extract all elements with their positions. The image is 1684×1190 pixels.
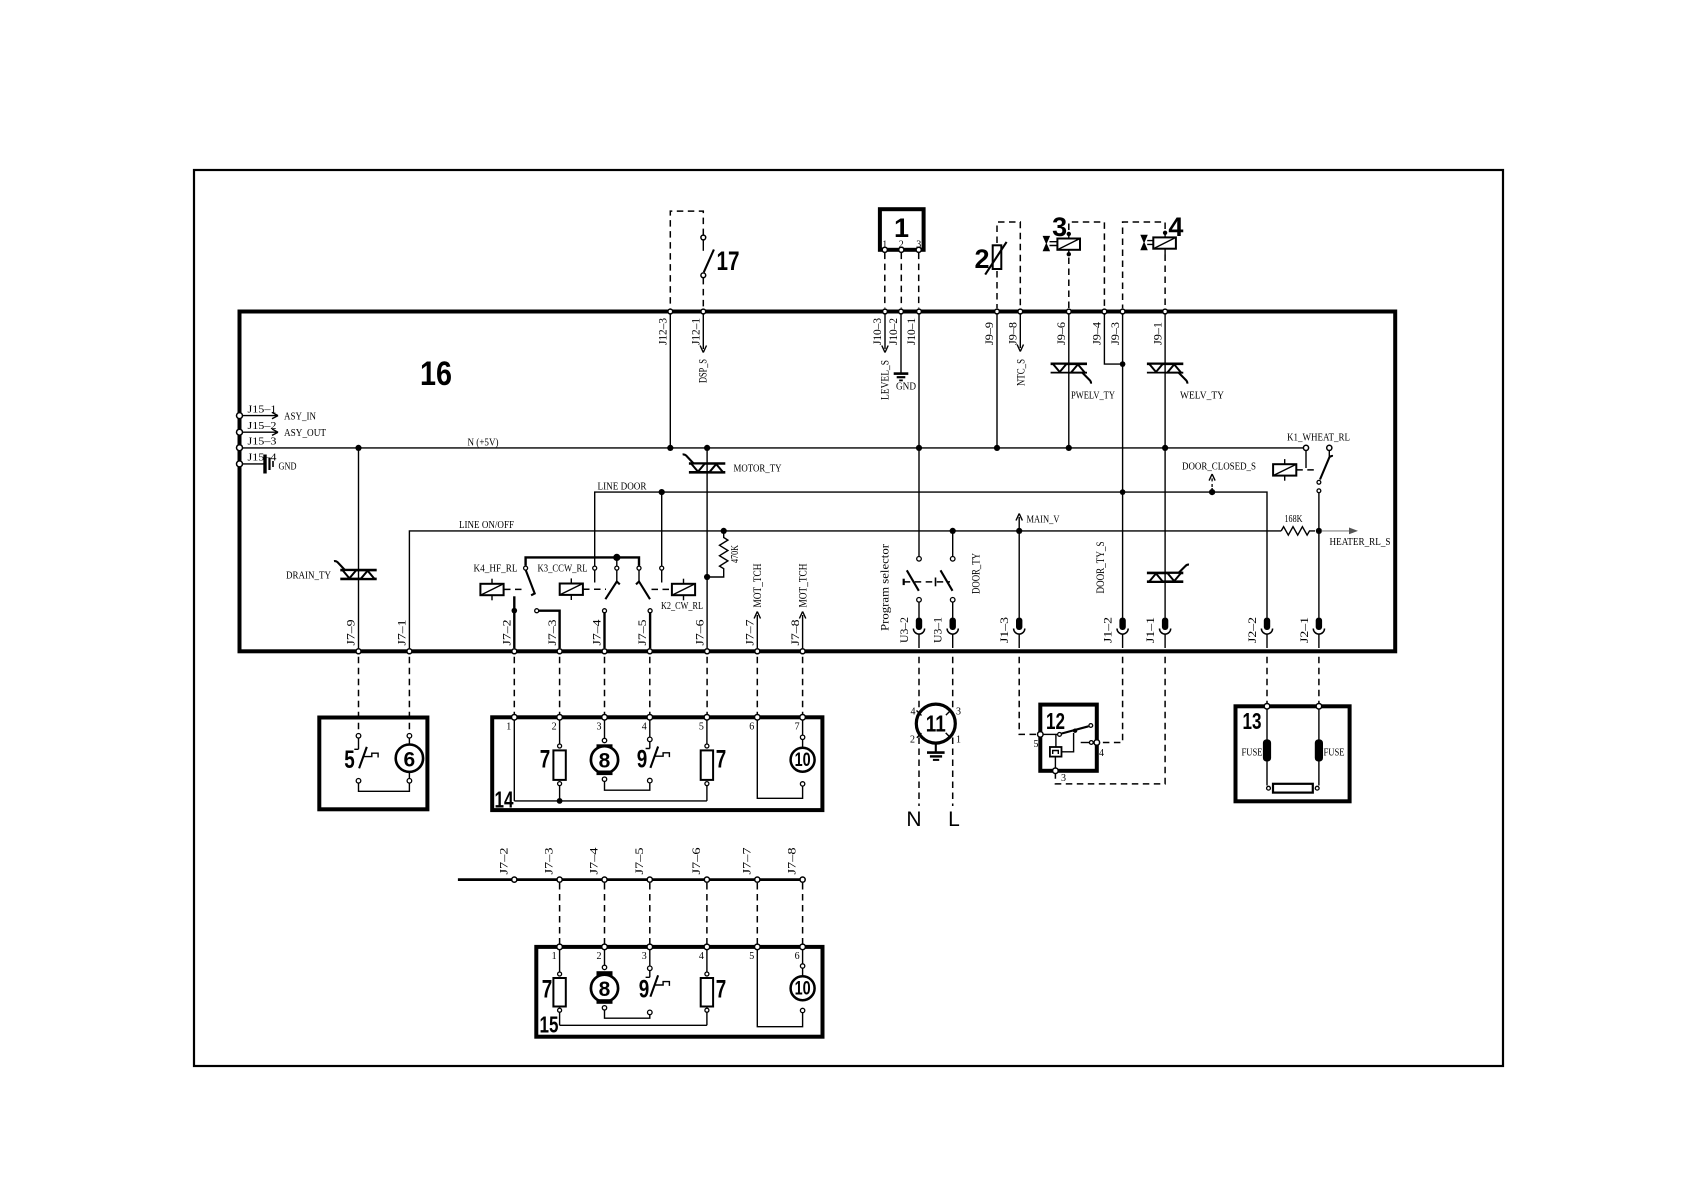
lamp 10 in block 14 (757, 720, 802, 798)
wire J7-6 to connector 14 (dashed) (706, 657, 708, 718)
svg-text:3: 3 (1061, 773, 1066, 784)
mech link K1 (dashed) (1296, 469, 1315, 471)
svg-text:2: 2 (974, 244, 989, 274)
svg-text:DOOR_TY_S: DOOR_TY_S (1093, 542, 1107, 594)
wire U3-1 to motor 11 then L (dashed) (952, 657, 954, 806)
pin J7-9 on board bottom edge (356, 649, 361, 654)
wire J9-4 jog to J9-3 line (1104, 315, 1120, 365)
svg-text:1: 1 (506, 722, 511, 733)
svg-text:16: 16 (420, 355, 452, 393)
svg-text:1: 1 (894, 213, 909, 243)
junction LINE DOOR / J1-2 line (1120, 489, 1126, 495)
component 1 (level switch block) (880, 209, 924, 250)
door lock 12 (1040, 705, 1097, 771)
svg-text:2: 2 (910, 735, 915, 746)
block 15 pin 6 (800, 944, 806, 950)
svg-text:MOT_TCH: MOT_TCH (750, 563, 764, 607)
svg-text:DOOR_CLOSED_S: DOOR_CLOSED_S (1182, 461, 1256, 473)
svg-text:ASY_OUT: ASY_OUT (284, 427, 326, 439)
block 14 pin 4 (647, 715, 653, 721)
door lock pin 4 (1081, 742, 1094, 744)
svg-text:9: 9 (639, 976, 650, 1004)
svg-text:K2_CW_RL: K2_CW_RL (661, 600, 703, 612)
svg-text:5: 5 (699, 722, 704, 733)
svg-text:MAIN_V: MAIN_V (1027, 514, 1060, 526)
block 14 pin 5 (704, 715, 710, 721)
svg-text:J7–4: J7–4 (590, 620, 604, 646)
pin J9-8 on board top edge (1018, 309, 1023, 314)
mech link K3 (dashed) (583, 588, 606, 590)
block 14 pin 6 (755, 715, 761, 721)
motor 11 ground (935, 743, 937, 752)
harness node J7-7 (755, 877, 760, 882)
right fuse (1318, 709, 1320, 741)
svg-text:MOT_TCH: MOT_TCH (795, 563, 809, 607)
LEVEL_S arrow from J10-3 (882, 315, 888, 353)
svg-text:3: 3 (956, 707, 961, 718)
pin J15-1 with ASY_IN arrow (237, 413, 243, 419)
svg-text:J7–7: J7–7 (743, 620, 757, 646)
wire: LINE DOOR (595, 492, 1267, 617)
svg-text:J9–4: J9–4 (1090, 322, 1104, 345)
pin J7-3 on board bottom edge (557, 649, 562, 654)
block 15 pin 2 (602, 944, 608, 950)
relay contact K3 : arm to J7-4 (615, 566, 619, 570)
door triac (DOOR_TY_S sense) (1147, 572, 1183, 575)
svg-text:J7–3: J7–3 (545, 620, 559, 646)
svg-text:4: 4 (642, 722, 647, 733)
svg-text:GND: GND (279, 461, 297, 473)
switch U3-2 (917, 557, 922, 562)
component 3 dashed harness box (1069, 222, 1105, 308)
MOT_TCH arrow J7-8 (799, 612, 805, 649)
wire J7-5 to connector 14 (dashed) (649, 657, 651, 718)
pin U3-2 on board bottom edge (916, 618, 922, 631)
pin J2-2 on board bottom edge (1264, 618, 1270, 631)
svg-text:10: 10 (795, 750, 811, 771)
relay coil K1 (1284, 459, 1286, 481)
pin J9-4 on board top edge (1102, 309, 1107, 314)
pin J10-1 on board top edge (917, 309, 922, 314)
svg-text:168K: 168K (1285, 513, 1303, 525)
svg-text:J12–1: J12–1 (689, 318, 703, 345)
block 14 pin 3 (602, 715, 608, 721)
component 2 dashed harness box (997, 222, 1020, 308)
wire J7-2 to connector 14 (dashed) (513, 657, 515, 718)
svg-text:9: 9 (637, 746, 648, 774)
N rail end circle (1303, 445, 1308, 450)
lamp 10 in block 15 (757, 950, 802, 1027)
svg-text:5: 5 (749, 951, 754, 962)
svg-text:J7–3: J7–3 (542, 848, 556, 875)
wire block14 pin1 to bus (513, 720, 515, 801)
svg-text:HEATER_RL_S: HEATER_RL_S (1330, 536, 1391, 548)
svg-text:J15–3: J15–3 (248, 436, 278, 448)
lower harness bus (458, 878, 803, 881)
heater element (1267, 762, 1319, 786)
svg-text:1: 1 (552, 951, 557, 962)
block 15 pin 1 (557, 944, 563, 950)
resistor 168K (1281, 527, 1315, 535)
svg-text:6: 6 (795, 951, 800, 962)
svg-text:J2–2: J2–2 (1245, 617, 1259, 643)
svg-text:4: 4 (911, 707, 916, 718)
svg-text:NTC_S: NTC_S (1014, 359, 1028, 386)
pin J7-8 on board bottom edge (800, 649, 805, 654)
svg-text:DOOR_TY: DOOR_TY (969, 553, 983, 594)
svg-text:J7–7: J7–7 (739, 848, 753, 875)
pin J15-4 with GND symbol (237, 461, 243, 467)
svg-text:FUSE: FUSE (1324, 748, 1345, 759)
relay contact bus feeding K4/K3/K2 (526, 557, 639, 565)
svg-text:Program selector: Program selector (878, 544, 892, 631)
svg-text:2: 2 (552, 722, 557, 733)
resistor 7 (right) in block 15 (706, 950, 708, 972)
wire J1-3 to door lock pin5 (dashed) (1019, 657, 1037, 735)
svg-text:J10–1: J10–1 (904, 318, 918, 345)
junction N rail / J12-3 (667, 445, 673, 451)
pin J9-3 on board top edge (1120, 309, 1125, 314)
wire J7-8 to connector 14 (dashed) (802, 657, 804, 718)
pin J15-3 feeds N(+5V) rail (237, 445, 243, 451)
svg-text:J10–3: J10–3 (870, 318, 884, 345)
mech link K4 (dashed) (504, 588, 526, 590)
svg-text:LINE ON/OFF: LINE ON/OFF (459, 519, 514, 531)
connector block 15 (536, 947, 822, 1037)
wire comp1 pin1 to J10-3 (dashed) (884, 253, 886, 309)
relay contact K1 (1327, 445, 1332, 450)
svg-text:7: 7 (795, 722, 800, 733)
svg-text:J10–2: J10–2 (886, 318, 900, 345)
wire J1-1 to door lock pin3 (dashed) (1055, 657, 1165, 784)
svg-text:5: 5 (344, 746, 355, 774)
svg-text:J9–3: J9–3 (1108, 322, 1122, 345)
junction N rail / PWELV triac (1066, 445, 1072, 451)
wire harness J7-8 to connector 15 (dashed) (802, 883, 804, 947)
wire: LINE ON/OFF rail (409, 531, 1281, 648)
svg-text:7: 7 (716, 746, 727, 774)
wire K2 contact to pin J7-5 (649, 613, 651, 648)
component 4 dashed harness box (1123, 222, 1166, 308)
wire J7-9 branch: N rail through DRAIN_TY to pin J7-9 (358, 448, 360, 648)
svg-text:3: 3 (597, 722, 602, 733)
svg-text:FUSE: FUSE (1242, 748, 1263, 759)
svg-text:MOTOR_TY: MOTOR_TY (734, 463, 782, 475)
pin J9-1 on board top edge (1163, 309, 1168, 314)
junction N rail / motor triac branch (704, 445, 710, 451)
pin J7-7 on board bottom edge (755, 649, 760, 654)
svg-text:J7–4: J7–4 (587, 848, 601, 875)
svg-text:13: 13 (1243, 708, 1262, 734)
wire K4 contact to pin J7-3 (539, 611, 560, 648)
svg-text:470K: 470K (729, 545, 741, 563)
svg-text:6: 6 (404, 749, 416, 772)
wire K1 contact to pin J2-1 (1318, 493, 1320, 618)
svg-text:J7–5: J7–5 (632, 848, 646, 875)
NTC_S arrow from J9-8 (1017, 315, 1023, 352)
wire J7-7 to connector 14 (dashed) (756, 657, 758, 718)
pin U3-1 on board bottom edge (950, 618, 956, 631)
svg-text:K1_WHEAT_RL: K1_WHEAT_RL (1287, 432, 1350, 444)
svg-text:4: 4 (699, 951, 704, 962)
harness node J7-5 (647, 877, 652, 882)
block 15 pin 5 (755, 944, 761, 950)
pin J2-1 on board bottom edge (1316, 618, 1322, 631)
junction LINE ON-OFF / 470K (721, 528, 727, 534)
wire J7-1 to box5 (dashed) (408, 657, 410, 733)
junction J9-4 / J9-3 (1120, 361, 1126, 367)
wire J2-2 to fuse box (dashed) (1266, 657, 1268, 703)
svg-text:N: N (906, 808, 921, 831)
svg-text:GND: GND (896, 381, 916, 393)
wire J10-1 down through board to U3-2 switch (918, 315, 920, 557)
stub wire to pin J7-2 (513, 596, 515, 648)
resistor 7 (right) in block 14 (706, 720, 708, 744)
svg-text:J9–9: J9–9 (982, 322, 996, 345)
door lock PTC element A (1050, 747, 1062, 757)
svg-text:K4_HF_RL: K4_HF_RL (474, 563, 518, 575)
svg-text:7: 7 (542, 976, 553, 1004)
pin J1-1 on board bottom edge (1162, 618, 1168, 631)
svg-text:8: 8 (599, 750, 611, 773)
svg-text:J7–6: J7–6 (692, 620, 706, 646)
svg-text:5: 5 (1034, 739, 1039, 750)
wire 5 to 6 inside box (359, 783, 410, 791)
pin J7-5 on board bottom edge (647, 649, 652, 654)
svg-text:J7–2: J7–2 (496, 848, 510, 875)
svg-text:J1–1: J1–1 (1143, 617, 1157, 643)
svg-text:N (+5V): N (+5V) (468, 437, 499, 449)
pin J1-2 on board bottom edge (1119, 618, 1125, 631)
pin J12-3 on board top edge (668, 309, 673, 314)
switch 17 dashed harness box (670, 211, 703, 308)
switch U3-1 (952, 531, 954, 557)
svg-text:U3–2: U3–2 (897, 617, 911, 643)
wire J9-9 down to N rail (996, 315, 998, 448)
wire harness J7-3 to connector 15 (dashed) (559, 883, 561, 947)
relay contact K4 (524, 566, 528, 570)
wire J1-2 to door lock pin4 (dashed) (1100, 657, 1123, 743)
svg-text:J9–8: J9–8 (1006, 322, 1020, 345)
svg-text:J7–8: J7–8 (788, 620, 802, 646)
svg-text:15: 15 (540, 1012, 559, 1038)
pin J7-6 on board bottom edge (705, 649, 710, 654)
junction N rail / J10-1 line (916, 445, 922, 451)
harness node J7-2 (512, 877, 517, 882)
svg-text:J1–3: J1–3 (997, 617, 1011, 643)
svg-text:J7–5: J7–5 (635, 620, 649, 646)
block 15 pin 3 (647, 944, 653, 950)
wire J1-3 from LINE ON/OFF to pin (1018, 531, 1020, 618)
wire J12-3 down to N rail (669, 315, 671, 448)
mech link K2 (dashed) (652, 588, 672, 590)
harness node J7-6 (704, 877, 709, 882)
wire U3-2 to motor 11 then N (dashed) (918, 657, 920, 806)
svg-text:J12–3: J12–3 (656, 318, 670, 345)
junction N rail / WELV line (1162, 445, 1168, 451)
svg-text:DRAIN_TY: DRAIN_TY (286, 570, 331, 582)
svg-text:4: 4 (1099, 748, 1104, 759)
MAIN_V arrow (1016, 514, 1022, 531)
svg-text:7: 7 (716, 976, 727, 1004)
door lock pin 5 (1038, 732, 1044, 738)
resistor 470K (707, 531, 728, 577)
junction LINE ON-OFF / U3-1 (950, 528, 956, 534)
svg-text:14: 14 (495, 787, 514, 813)
wire motor triac line to pin J7-6 (706, 448, 708, 648)
fuse box 13 (1236, 706, 1350, 801)
pin J15-2 with ASY_OUT arrow (237, 429, 243, 435)
pin J9-9 on board top edge (995, 309, 1000, 314)
wire J2-1 to fuse box (dashed) (1318, 657, 1320, 703)
wire J9-3 down through board to J1-2 pin (1122, 315, 1124, 618)
MOT_TCH arrow J7-7 (754, 612, 760, 649)
wire motor 8 to switch 9 (605, 781, 650, 790)
svg-text:LINE DOOR: LINE DOOR (598, 481, 648, 493)
svg-text:J7–2: J7–2 (500, 620, 514, 646)
svg-text:J9–1: J9–1 (1150, 322, 1164, 345)
harness node J7-8 (800, 877, 805, 882)
junction LINE ON-OFF / J1-3 MAIN_V (1016, 528, 1022, 534)
svg-text:10: 10 (795, 979, 811, 1000)
door lock switch (1043, 733, 1058, 735)
wire: N(+5V) rail (243, 447, 1307, 449)
svg-text:J7–1: J7–1 (395, 620, 409, 646)
wire J7-4 to connector 14 (dashed) (604, 657, 606, 718)
svg-text:ASY_IN: ASY_IN (284, 411, 316, 423)
svg-text:J15–2: J15–2 (248, 420, 277, 432)
pin J7-1 on board bottom edge (407, 649, 412, 654)
junction N rail / J9-9 line (994, 445, 1000, 451)
relay contact K3 : NC throw from LINE DOOR (593, 566, 597, 570)
fuse box pins (1264, 704, 1270, 710)
wire motor 8 to switch 9 in block 15 (605, 1010, 650, 1018)
relay contact K2 : NC throw from LINE DOOR (660, 566, 664, 570)
harness node J7-4 (602, 877, 607, 882)
svg-text:J7–6: J7–6 (689, 848, 703, 875)
junction N rail / J7-9 branch (355, 445, 361, 451)
motor 8 in block 14 (604, 720, 606, 739)
svg-text:J9–6: J9–6 (1054, 322, 1068, 345)
HEATER_RL_S gray arrow (1322, 530, 1353, 532)
svg-text:L: L (948, 808, 960, 831)
svg-text:3: 3 (642, 951, 647, 962)
triac DRAIN_TY (340, 569, 376, 572)
svg-text:11: 11 (926, 711, 946, 737)
svg-text:PWELV_TY: PWELV_TY (1071, 390, 1115, 402)
triac MOTOR_TY (689, 462, 725, 465)
bus wire in block 14 (514, 800, 707, 802)
svg-text:6: 6 (749, 722, 754, 733)
motor 8 in block 15 (604, 950, 606, 966)
pin J1-3 on board bottom edge (1016, 618, 1022, 631)
wire J10-2 to signal ground (900, 315, 902, 373)
block 14 pin 7 (800, 715, 806, 721)
svg-text:1: 1 (956, 735, 961, 746)
svg-text:17: 17 (717, 246, 740, 276)
connector block 14 (492, 717, 822, 810)
block 15 pin 4 (704, 944, 710, 950)
svg-text:J7–8: J7–8 (785, 848, 799, 875)
harness node J7-3 (557, 877, 562, 882)
motor 11 terminal ticks (917, 711, 951, 738)
DSP_S output arrow from J12-1 (700, 315, 706, 353)
svg-text:DSP_S: DSP_S (696, 359, 710, 383)
pin J10-2 on board top edge (899, 309, 904, 314)
svg-text:J15–1: J15–1 (248, 404, 277, 416)
wire harness J7-4 to connector 15 (dashed) (604, 883, 606, 947)
svg-text:WELV_TY: WELV_TY (1180, 390, 1224, 402)
svg-text:12: 12 (1046, 708, 1065, 734)
svg-text:K3_CCW_RL: K3_CCW_RL (538, 563, 588, 575)
pin J10-3 on board top edge (883, 309, 888, 314)
pin J9-6 on board top edge (1066, 309, 1071, 314)
load box (motor protector 5 + lamp 6) (319, 718, 427, 810)
signal ground symbol (894, 372, 909, 375)
wire J9-1 down through WELV and door triacs to J1-1 pin (1164, 315, 1166, 618)
wire harness J7-6 to connector 15 (dashed) (706, 883, 708, 947)
left fuse (1266, 709, 1268, 741)
lamp 6 (407, 734, 412, 739)
svg-text:8: 8 (599, 978, 611, 1001)
triac WELV_TY (1147, 362, 1183, 365)
wire J7-9 to box5 (dashed) (358, 657, 360, 733)
wire comp1 pin3 to J10-1 (dashed) (918, 253, 920, 309)
junction LINE DOOR / K2 feed (659, 489, 665, 495)
wire comp1 pin2 to J10-2 (dashed) (900, 253, 902, 309)
wire K3 contact to pin J7-4 (603, 613, 605, 648)
junction heater sense (1316, 528, 1322, 534)
wire J7-3 to connector 14 (dashed) (559, 657, 561, 718)
svg-text:J7–9: J7–9 (344, 620, 358, 646)
pin J7-2 on board bottom edge (512, 649, 517, 654)
junction contact bus / center throw (613, 554, 620, 561)
wire harness J7-5 to connector 15 (dashed) (649, 883, 651, 947)
triac PWELV_TY (1051, 362, 1087, 365)
svg-text:2: 2 (597, 951, 602, 962)
svg-text:J1–2: J1–2 (1101, 617, 1115, 643)
junction 470K / motor triac line (704, 574, 710, 580)
pin J12-1 on board top edge (701, 309, 706, 314)
svg-text:LEVEL_S: LEVEL_S (878, 360, 892, 400)
svg-text:7: 7 (540, 746, 551, 774)
mech link U3 (dashed with T bar) (903, 579, 905, 585)
door lock pin 3 (1054, 757, 1056, 768)
relay contact K2 : feed throw (637, 566, 641, 570)
pin J7-4 on board bottom edge (602, 649, 607, 654)
block 14 pin 1 (512, 715, 518, 721)
wire J9-6 down through PWELV triac to N rail (1068, 315, 1070, 448)
bus wire in block 15 (560, 1024, 707, 1026)
wire harness J7-7 to connector 15 (dashed) (756, 883, 758, 947)
svg-text:U3–1: U3–1 (931, 617, 945, 643)
motor 11 (916, 704, 955, 743)
control board U16 outline (240, 312, 1396, 652)
svg-text:J2–1: J2–1 (1297, 617, 1311, 643)
block 14 pin 2 (557, 715, 563, 721)
junction LINE DOOR / DOOR_CLOSED_S (1209, 489, 1215, 495)
